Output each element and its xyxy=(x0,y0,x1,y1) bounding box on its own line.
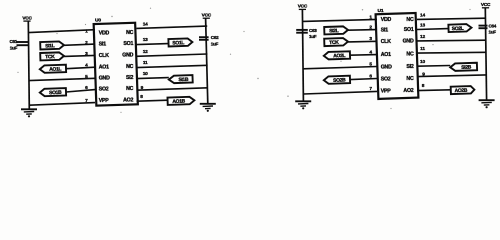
svg-text:11: 11 xyxy=(143,60,148,66)
capacitor C64 xyxy=(479,24,497,35)
port SI1L xyxy=(40,41,64,49)
svg-text:SI2: SI2 xyxy=(406,64,414,70)
wire rail to U1 pin7 VPP xyxy=(303,91,377,94)
ground (right rail, U1) xyxy=(479,100,495,108)
svg-text:CLK: CLK xyxy=(99,53,110,59)
wire U0 pin14 to right rail xyxy=(137,26,208,28)
wire SO2B to U1 pin6 xyxy=(350,79,377,80)
svg-text:AO2L: AO2L xyxy=(333,53,345,59)
wire U0 pin11 to right rail xyxy=(137,65,208,67)
svg-text:SO1: SO1 xyxy=(404,27,414,33)
svg-text:NC: NC xyxy=(126,86,134,92)
capacitor C61 xyxy=(9,39,28,50)
svg-text:SO2L: SO2L xyxy=(452,26,464,32)
svg-text:1uF: 1uF xyxy=(10,45,18,50)
svg-text:C62: C62 xyxy=(211,35,219,40)
wire U1 pin12 to right rail xyxy=(417,39,486,42)
svg-text:GND: GND xyxy=(403,38,414,44)
svg-text:13: 13 xyxy=(143,37,148,43)
port SO2B (U1) xyxy=(324,76,350,84)
svg-text:AO2: AO2 xyxy=(403,88,413,94)
ground (left rail, U0) xyxy=(21,109,37,117)
port AO2L xyxy=(324,51,350,59)
svg-text:1uF: 1uF xyxy=(309,34,317,39)
svg-text:14: 14 xyxy=(420,13,425,19)
wire rail to U0 pin7 VPP xyxy=(29,103,95,106)
svg-text:NC: NC xyxy=(126,64,134,70)
wire TCK to U1 pin3 xyxy=(348,40,377,43)
svg-text:TCK: TCK xyxy=(45,54,55,60)
svg-text:C63: C63 xyxy=(309,28,317,33)
svg-text:VCC: VCC xyxy=(298,4,308,9)
svg-text:GND: GND xyxy=(122,53,133,59)
svg-text:VPP: VPP xyxy=(99,98,110,104)
port SO1L xyxy=(168,38,192,46)
svg-text:NC: NC xyxy=(126,30,134,36)
wire right VCC rail (U0) xyxy=(206,18,208,104)
svg-text:11: 11 xyxy=(420,46,425,52)
svg-text:VDD: VDD xyxy=(99,31,110,37)
svg-text:CLK: CLK xyxy=(381,39,392,45)
IC U1 body xyxy=(376,13,419,99)
port SI1B xyxy=(169,75,193,83)
svg-text:SI1: SI1 xyxy=(381,27,389,33)
capacitor C63 xyxy=(296,28,317,39)
wire right VCC rail (U1) xyxy=(485,8,486,101)
svg-text:VCC: VCC xyxy=(481,2,491,7)
svg-text:VDD: VDD xyxy=(381,17,392,23)
svg-text:12: 12 xyxy=(143,49,148,55)
power VCC (left rail, U0) xyxy=(22,15,32,21)
wire rail to U0 pin5 GND xyxy=(29,78,95,80)
wire SO1B to U0 pin6 xyxy=(66,90,95,92)
svg-text:SI2: SI2 xyxy=(126,75,134,81)
wire U0 pin8 to AO1B xyxy=(137,100,168,101)
svg-text:GND: GND xyxy=(381,64,392,70)
svg-text:AO2B: AO2B xyxy=(454,88,467,94)
svg-text:AO2: AO2 xyxy=(123,98,133,104)
svg-text:12: 12 xyxy=(420,34,425,40)
wire U0 pin12 to right rail xyxy=(137,54,208,56)
port AO2B xyxy=(451,86,475,94)
wire rail to U1 pin5 GND xyxy=(303,67,377,69)
svg-text:GND: GND xyxy=(99,76,110,82)
svg-text:NC: NC xyxy=(406,76,414,82)
svg-text:SI2B: SI2B xyxy=(461,65,472,71)
svg-text:NC: NC xyxy=(406,52,414,58)
svg-text:AO1B: AO1B xyxy=(172,99,185,105)
wire AO1L to U0 pin4 xyxy=(66,67,95,69)
port SO2L xyxy=(448,24,471,32)
power VCC (right rail, U0) xyxy=(202,13,212,19)
port TCK (U0) xyxy=(40,52,64,60)
scan noise specks xyxy=(111,16,112,17)
svg-text:U1: U1 xyxy=(378,8,384,14)
svg-text:SO2: SO2 xyxy=(381,76,391,82)
svg-text:VCC: VCC xyxy=(202,13,212,18)
svg-text:C61: C61 xyxy=(9,39,17,44)
svg-text:TCK: TCK xyxy=(329,40,339,46)
svg-text:14: 14 xyxy=(143,22,148,28)
power VCC (left rail, U1) xyxy=(298,4,308,10)
svg-text:SO2B: SO2B xyxy=(333,77,346,83)
svg-text:SI1: SI1 xyxy=(99,41,107,47)
svg-text:13: 13 xyxy=(420,22,425,28)
wire U1 pin8 to AO2B xyxy=(417,89,451,92)
svg-text:VPP: VPP xyxy=(381,89,392,95)
svg-text:VCC: VCC xyxy=(22,15,32,20)
svg-text:1uF: 1uF xyxy=(489,30,497,35)
svg-text:SO1B: SO1B xyxy=(49,90,62,96)
svg-text:AO1: AO1 xyxy=(381,52,391,58)
svg-text:SI2L: SI2L xyxy=(329,28,339,34)
svg-text:1uF: 1uF xyxy=(211,41,219,46)
wire U1 pin13 to SO2L xyxy=(417,28,449,31)
ground (left rail, U1) xyxy=(295,101,311,109)
svg-text:AO1L: AO1L xyxy=(49,66,61,72)
IC U0 body xyxy=(94,23,138,106)
port TCK (U1) xyxy=(324,38,348,46)
wire U1 pin10 to SI2B xyxy=(417,65,450,68)
wire U0 pin9 to right rail xyxy=(137,88,208,90)
port SI2B xyxy=(450,63,477,71)
svg-text:10: 10 xyxy=(420,59,425,65)
svg-text:SO2: SO2 xyxy=(99,87,109,93)
wire TCK to U0 pin3 xyxy=(64,55,95,56)
capacitor C62 xyxy=(199,35,219,46)
wire SI2L to U1 pin2 xyxy=(348,29,377,32)
wire AO2L to U1 pin4 xyxy=(350,54,377,57)
svg-text:SI1L: SI1L xyxy=(45,43,55,49)
svg-text:SO1: SO1 xyxy=(123,41,133,47)
wire left VCC rail (U1) xyxy=(302,9,303,101)
port SI2L xyxy=(324,26,348,34)
svg-text:10: 10 xyxy=(143,71,148,77)
svg-text:SI1B: SI1B xyxy=(178,77,189,83)
wire SI1L to U0 pin2 xyxy=(64,44,95,45)
svg-text:C64: C64 xyxy=(489,24,497,29)
wire U1 pin9 to right rail xyxy=(417,75,486,77)
svg-text:NC: NC xyxy=(406,17,414,23)
ground (right rail, U0) xyxy=(200,104,216,112)
svg-text:U0: U0 xyxy=(95,18,101,24)
wire U0 pin10 to SI1B xyxy=(137,78,169,79)
svg-text:AO1: AO1 xyxy=(99,65,109,71)
wire U1 pin14 to right rail xyxy=(417,18,486,19)
svg-text:SO1L: SO1L xyxy=(172,40,184,46)
port AO1B xyxy=(167,97,194,105)
wire U0 pin13 to SO1L xyxy=(137,44,169,45)
wire VCC rail to U1 pin1 xyxy=(303,19,377,21)
wire U1 pin11 to right rail xyxy=(417,51,486,54)
port AO1L xyxy=(40,65,66,73)
wire left VCC rail (U0) xyxy=(28,21,29,109)
wire VCC rail to U0 pin1 xyxy=(28,30,95,33)
port SO1B (U0) xyxy=(40,88,66,96)
power VCC (right rail, U1) xyxy=(481,2,491,8)
